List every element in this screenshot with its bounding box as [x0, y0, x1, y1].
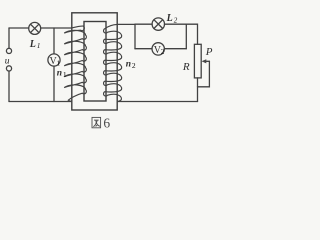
wire V2 branch left [135, 48, 152, 50]
svg-text:2: 2 [132, 61, 136, 70]
wire top-left horizontal [9, 27, 29, 29]
wire bottom-right horizontal [117, 101, 197, 103]
wire right riser of parallel loop [185, 24, 187, 49]
wire bottom-left horizontal [9, 101, 72, 103]
svg-text:1: 1 [37, 42, 41, 50]
resistor bottom lead [197, 78, 199, 102]
wire V1 bottom [53, 66, 55, 101]
caption: hanzi "tu" drawn with strokes [92, 117, 101, 127]
transformer core outer rectangle [72, 13, 117, 110]
wire loop to resistor top [186, 24, 197, 44]
wire to lamp L2 [135, 23, 152, 25]
wire lamp L1 to transformer [41, 27, 72, 29]
wire junction down to V2 branch [134, 24, 136, 48]
svg-text:L: L [166, 13, 173, 24]
lamp L1 [29, 22, 41, 34]
wire left vertical upper [8, 28, 10, 48]
svg-text:1: 1 [56, 58, 60, 67]
wire V2 right [164, 48, 186, 50]
voltmeter V1 [48, 54, 60, 66]
slider arrow P [204, 60, 210, 62]
terminal lower [6, 66, 11, 71]
terminal upper [6, 48, 11, 53]
svg-text:2: 2 [174, 16, 178, 24]
svg-text:6: 6 [103, 116, 110, 131]
resistor R body [194, 44, 201, 78]
slider wire [198, 61, 210, 87]
svg-text:n: n [57, 68, 62, 78]
wire L2 right [165, 23, 187, 25]
wire V1 top [53, 28, 55, 54]
svg-text:R: R [182, 61, 190, 73]
transformer core inner rectangle [84, 22, 106, 102]
primary coil n1 [64, 26, 86, 101]
lamp L2 [152, 18, 164, 30]
svg-text:n: n [126, 59, 131, 69]
svg-text:2: 2 [161, 47, 165, 56]
svg-text:1: 1 [63, 70, 67, 79]
wire transformer to right circuit top [117, 23, 135, 25]
secondary coil n2 [103, 24, 121, 101]
svg-text:u: u [5, 57, 10, 67]
voltmeter V2 [152, 43, 164, 55]
wire left vertical lower [8, 71, 10, 101]
slider arrowhead [202, 59, 207, 63]
svg-text:P: P [205, 46, 213, 58]
svg-text:L: L [29, 39, 36, 50]
